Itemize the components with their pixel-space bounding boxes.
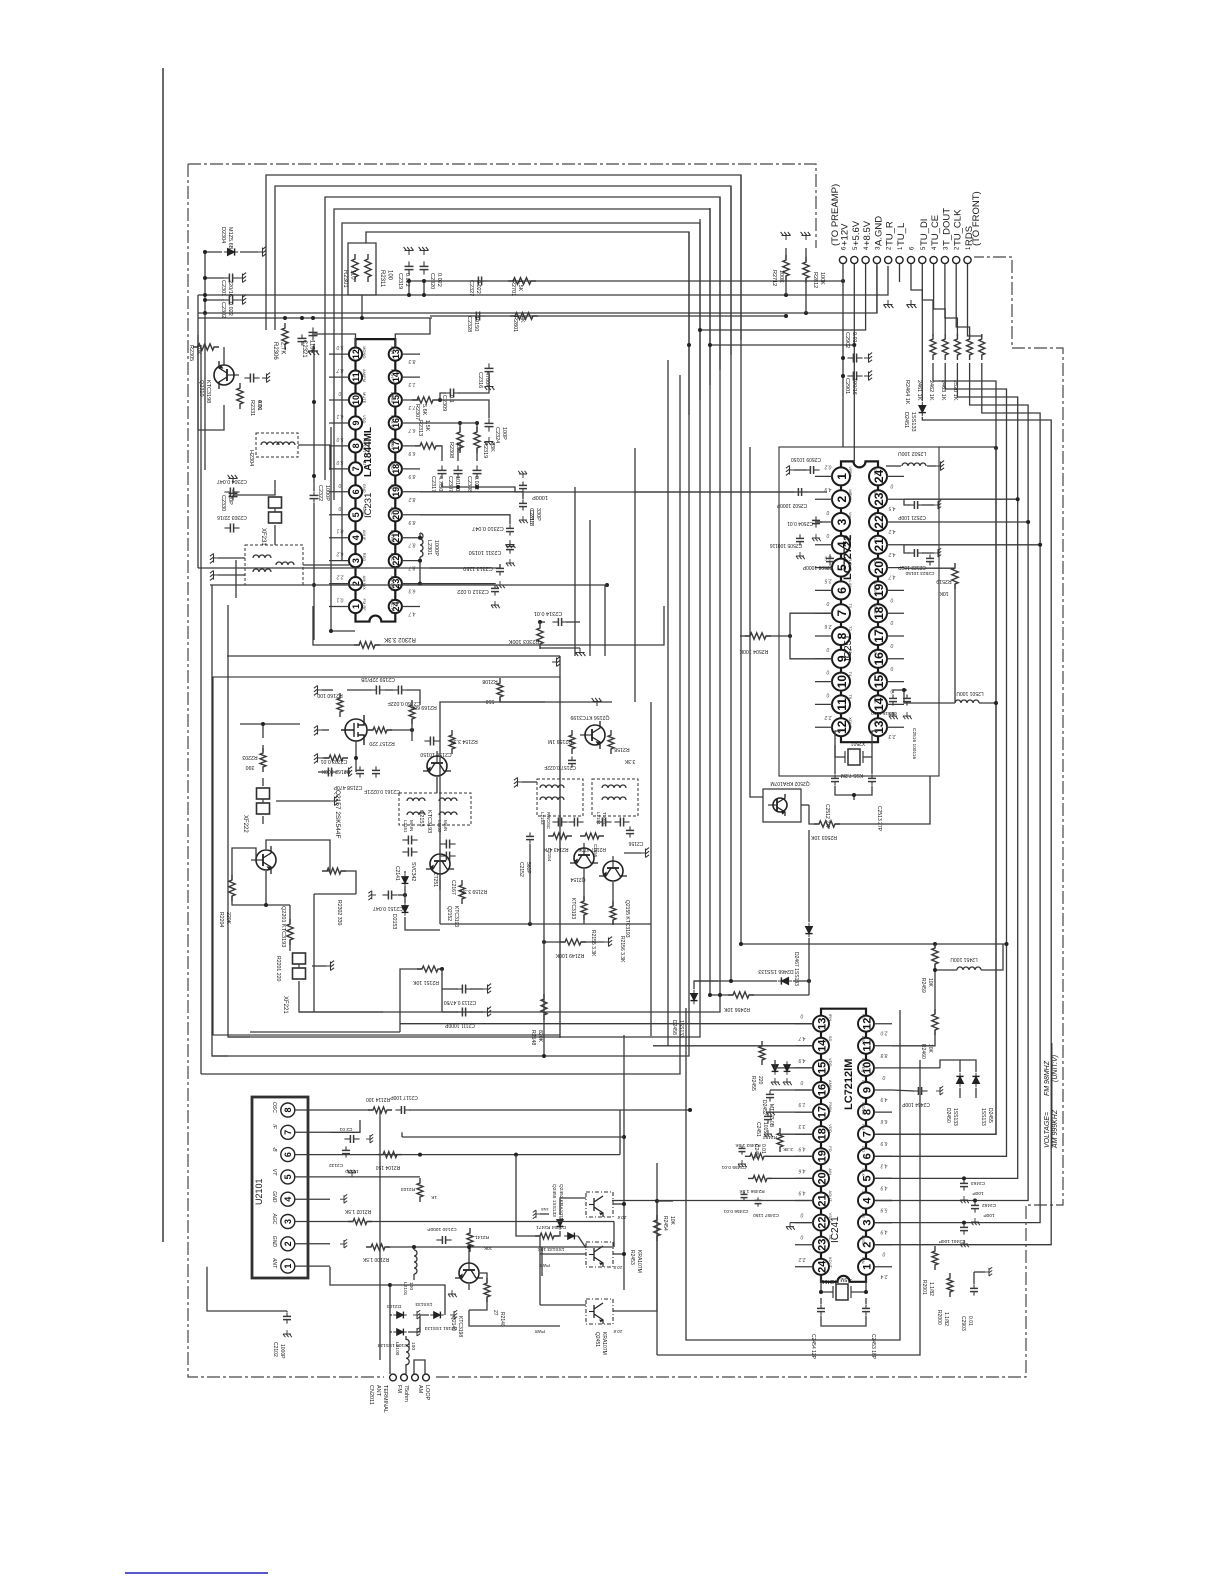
crystal XF221 [293, 953, 306, 964]
resistor R2140 27 [484, 1278, 490, 1302]
wire R box bottom to bus [361, 295, 363, 318]
wire left rail x201 [200, 345, 202, 1074]
resistor R2503 10K [814, 821, 840, 827]
svg-text:DI: DI [873, 512, 878, 516]
connector pin 1 RDS [964, 256, 971, 263]
svg-text:LOOP: LOOP [424, 1385, 430, 1401]
wire box top extension [939, 446, 996, 448]
svg-text:11: 11 [835, 698, 849, 711]
svg-text:XOUT: XOUT [848, 717, 853, 729]
svg-text:TERMINAL: TERMINAL [382, 1385, 388, 1413]
svg-text:Vose: Vose [848, 535, 853, 545]
svg-text:GND: GND [362, 507, 367, 516]
svg-text:6: 6 [835, 587, 849, 594]
svg-text:4.9: 4.9 [880, 1229, 887, 1235]
svg-text:L2501 100U: L2501 100U [956, 690, 984, 696]
resistor R2169 680 [409, 700, 415, 724]
svg-text:R2701: R2701 [510, 280, 516, 296]
wire IC241 enclosure inner [686, 1008, 900, 1340]
wire osc out [367, 729, 373, 731]
svg-text:KSS 7.2M: KSS 7.2M [841, 772, 864, 778]
wire osc section box [213, 677, 560, 1035]
svg-text:0: 0 [338, 482, 341, 488]
svg-text:FM 98MHZ: FM 98MHZ [1044, 1060, 1051, 1096]
resistor R2519 10K [952, 563, 958, 589]
wire TU_R net [198, 266, 888, 295]
resistor R2452 3.3K [777, 1128, 783, 1152]
wire IC231 pin 18 stub [402, 468, 420, 470]
svg-text:3.3K: 3.3K [782, 1146, 793, 1152]
connector U2101 pin 2 GND [281, 1237, 295, 1251]
discriminator T2301 box [245, 545, 303, 585]
wire IC241 stubs row 8 [795, 1200, 814, 1202]
svg-text:6: 6 [283, 1152, 293, 1157]
svg-text:100P: 100P [983, 1212, 994, 1218]
coil L2502 100U [902, 463, 926, 466]
svg-text:FM: FM [396, 1385, 402, 1393]
capacitor C2317 4.7/50 [441, 465, 443, 470]
ground TU stubs [899, 264, 901, 282]
svg-text:Voss: Voss [848, 512, 853, 521]
connector pin 2 TU_R [885, 256, 892, 263]
svg-text:DO: DO [861, 1146, 866, 1152]
svg-text:10K: 10K [927, 978, 933, 988]
resistor R2331 47K [237, 383, 243, 409]
svg-text:0: 0 [826, 669, 829, 675]
capacitor C2452 0.01 [767, 1112, 769, 1116]
connector CN2011 ANT [390, 1374, 397, 1381]
wire IC241 stubs row 7 [795, 1177, 814, 1179]
svg-text:22: 22 [816, 1216, 828, 1228]
svg-text:1.5K: 1.5K [424, 420, 430, 432]
resistor R2460 10K [932, 1009, 938, 1035]
svg-text:MPXIN: MPXIN [848, 489, 853, 502]
resistor R2159 1M [569, 730, 575, 754]
capacitor C2305 [301, 334, 303, 338]
wire long mid horizontals [250, 1031, 400, 1033]
resistor R2812 100K [801, 232, 811, 240]
resistor R2455 220 [759, 1041, 765, 1065]
svg-text:33K: 33K [489, 442, 495, 452]
svg-text:8.8: 8.8 [880, 1052, 887, 1058]
svg-text:2.4: 2.4 [880, 1273, 888, 1279]
svg-text:8.9: 8.9 [408, 473, 415, 479]
svg-text:C2157 0.022F: C2157 0.022F [544, 764, 576, 770]
svg-text:R2104 150: R2104 150 [376, 1164, 401, 1170]
capacitor C2141 caps row [402, 839, 408, 841]
wire AM bus y318 [198, 317, 432, 319]
wire IC251 stubs row 2 [815, 521, 833, 523]
svg-text:2: 2 [835, 496, 849, 503]
svg-text:L2100: L2100 [394, 1342, 400, 1356]
resistor R2453 1.5K capacitor C2455 [745, 1153, 769, 1159]
capacitor C2462 100P [974, 1201, 976, 1205]
coil L2451 100U [957, 967, 981, 970]
diode D2450 1SS133 [956, 1073, 963, 1087]
wire IC231 pin 9 stub [329, 422, 349, 424]
svg-text:5: 5 [861, 1175, 873, 1181]
footer link underline [125, 1572, 268, 1574]
svg-text:24: 24 [816, 1260, 828, 1273]
svg-text:(TO FRONT): (TO FRONT) [971, 191, 982, 246]
svg-text:1.9: 1.9 [798, 1101, 805, 1107]
transistor Q2201 KTC3193 [251, 846, 276, 874]
wire IC241 stubs row 0 [795, 1023, 814, 1025]
svg-text:KTC3193: KTC3193 [426, 810, 432, 833]
svg-text:C2902: C2902 [844, 332, 850, 348]
svg-text:FMIN: FMIN [828, 1102, 833, 1112]
svg-text:L2101: L2101 [402, 1282, 408, 1296]
svg-text:OSC: OSC [271, 1102, 277, 1113]
svg-text:C2509 10150: C2509 10150 [791, 456, 821, 462]
svg-text:2.0: 2.0 [880, 1030, 888, 1036]
svg-text:10.5: 10.5 [613, 1265, 622, 1270]
svg-text:8.3: 8.3 [408, 358, 415, 364]
svg-text:3: 3 [835, 518, 849, 525]
svg-text:XF231: XF231 [260, 528, 266, 546]
svg-text:R2203: R2203 [242, 754, 257, 760]
svg-text:C2312 0.022: C2312 0.022 [457, 588, 489, 594]
svg-text:LIN: LIN [848, 580, 853, 586]
wire IC251 stubs row 4 [815, 567, 833, 569]
svg-text:Q2451: Q2451 [594, 1332, 600, 1347]
svg-text:T3: T3 [848, 649, 853, 654]
svg-text:C2502 1000P: C2502 1000P [776, 502, 807, 508]
resistor R2104 150 [378, 1152, 402, 1158]
svg-text:R2453 1.5K: R2453 1.5K [735, 1142, 761, 1148]
svg-text:R2456 10K: R2456 10K [723, 1006, 749, 1012]
svg-text:3.3K: 3.3K [624, 758, 635, 764]
svg-text:C2322: C2322 [317, 485, 323, 501]
svg-text:4.2: 4.2 [888, 528, 895, 534]
wire IC251 stubs row 6 [815, 612, 833, 614]
svg-text:17: 17 [816, 1106, 828, 1118]
svg-text:FM RF: FM RF [362, 599, 367, 612]
wire agc net [330, 1221, 352, 1223]
resistor R2801 4K [510, 313, 538, 320]
photocoupler Q2452 KRA107M [586, 1192, 613, 1217]
pll IC251 LC72722 [841, 461, 878, 742]
wire y316 long net [430, 315, 786, 317]
svg-text:DO: DO [873, 558, 878, 564]
wire IC231 pin 5 stub [329, 514, 349, 516]
svg-text:4.9: 4.9 [798, 1190, 805, 1196]
svg-text:1N8: 1N8 [541, 1207, 549, 1212]
svg-text:1000P: 1000P [532, 494, 548, 500]
wire IC231 pin 19 stub [402, 491, 420, 493]
wire box R2302 [313, 606, 360, 645]
pll IC241 LC72121M [821, 1009, 866, 1282]
svg-text:R2454: R2454 [662, 1216, 668, 1231]
capacitor C2322 1000P [313, 491, 315, 495]
svg-text:L2151: L2151 [403, 820, 408, 833]
svg-text:220/16: 220/16 [227, 280, 233, 297]
svg-text:2462 1K: 2462 1K [928, 380, 934, 401]
resistor R2319 33K [474, 427, 480, 453]
capacitor C2453 18P [865, 1304, 867, 1308]
connector U2101 pin 8 OSC [281, 1103, 295, 1117]
svg-text:0: 0 [800, 1079, 803, 1085]
svg-text:1SS133: 1SS133 [952, 1108, 958, 1126]
svg-text:OSC RU: OSC RU [390, 599, 395, 615]
coil H2304 box [256, 433, 298, 457]
svg-text:Q2152: Q2152 [446, 906, 452, 921]
wire IC241 stubs row 5 [795, 1133, 814, 1135]
photocoupler Q2453 KRA107M [586, 1242, 613, 1267]
wire left col caps [235, 560, 237, 598]
svg-text:Q2452 KRA107M: Q2452 KRA107M [558, 1184, 564, 1222]
wire mpx long [634, 491, 794, 493]
svg-text:Q2502 KRA107M: Q2502 KRA107M [770, 780, 809, 786]
svg-text:4.5M: 4.5M [840, 1276, 851, 1282]
svg-text:220K: 220K [225, 912, 231, 925]
svg-text:C2314 0.01: C2314 0.01 [534, 610, 562, 616]
wire q2201 collector [266, 840, 330, 871]
svg-text:D2304: D2304 [220, 227, 226, 243]
svg-text:C2328: C2328 [466, 316, 472, 332]
diode D2452 MTZJ3.0B [772, 1061, 779, 1075]
svg-text:VSSX: VSSX [861, 1235, 866, 1246]
svg-text:1000P: 1000P [279, 1344, 285, 1359]
svg-text:R2155 3.3K: R2155 3.3K [590, 930, 596, 957]
svg-text:VCO: VCO [390, 461, 395, 470]
svg-text:17: 17 [872, 629, 886, 643]
svg-text:9: 9 [351, 420, 361, 425]
svg-text:Vooo: Vooo [873, 694, 878, 704]
svg-text:BT: BT [362, 461, 367, 467]
svg-text:9: 9 [861, 1087, 873, 1093]
svg-text:100: 100 [408, 1282, 414, 1290]
capacitor C2512 27P [834, 774, 836, 778]
bus wire L4 [334, 209, 710, 500]
svg-text:FLOUT: FLOUT [848, 558, 853, 572]
svg-text:C2453 18P: C2453 18P [870, 1334, 876, 1360]
svg-text:8: 8 [351, 443, 361, 448]
svg-text:R2302 3.3K: R2302 3.3K [384, 636, 416, 642]
resistor R2204 220K [229, 875, 235, 901]
svg-text:R2102 1.5K: R2102 1.5K [344, 1208, 371, 1214]
svg-text:VDD: VDD [828, 1124, 833, 1133]
bus wire L1 [266, 175, 741, 340]
capacitor C2314 0.01 [552, 621, 558, 623]
svg-text:1: 1 [351, 604, 361, 609]
svg-text:2461 1K: 2461 1K [916, 380, 922, 401]
svg-text:C2521 100P: C2521 100P [897, 514, 925, 520]
svg-text:D2451: D2451 [903, 412, 909, 428]
capacitor C2140 1000P [436, 1239, 442, 1241]
svg-text:27: 27 [492, 1310, 498, 1316]
svg-text:C2151 0.047: C2151 0.047 [373, 905, 403, 911]
svg-text:3: 3 [861, 1220, 873, 1226]
svg-text:-B: -B [271, 1147, 277, 1153]
ground pin22 [786, 1223, 795, 1230]
svg-text:C2457 1150: C2457 1150 [753, 1212, 779, 1218]
svg-text:0: 0 [890, 619, 893, 625]
svg-text:0: 0 [826, 509, 829, 515]
capacitor C2318 1000P [522, 481, 524, 485]
svg-text:C2455 0.01: C2455 0.01 [721, 1164, 746, 1170]
svg-text:C2508 1000P: C2508 1000P [802, 564, 833, 570]
diode D2467 1SS133 [805, 923, 812, 937]
svg-text:4.9: 4.9 [798, 1057, 805, 1063]
varactor SVC342 [402, 873, 409, 887]
svg-text:C2311 10150: C2311 10150 [469, 549, 502, 555]
wire q2140 nets [468, 1284, 470, 1290]
svg-text:2.3: 2.3 [888, 733, 896, 739]
board outline dash-dot border [188, 164, 1063, 1377]
svg-text:AM IF: AM IF [362, 530, 367, 541]
svg-text:C2111 1000P: C2111 1000P [444, 1022, 475, 1028]
capacitor C2513 27P [871, 774, 873, 778]
capacitor C2203 0.01 [322, 771, 328, 773]
svg-text:AM: AM [417, 1385, 423, 1394]
wire IC241 stubs row 3 [795, 1089, 814, 1091]
wire IC241 stubs row 1 [795, 1045, 814, 1047]
capacitor C2463 100P [963, 1179, 965, 1183]
svg-text:TU_CE: TU_CE [930, 215, 941, 246]
svg-text:Q2455 1SS133: Q2455 1SS133 [551, 1184, 557, 1217]
svg-text:FM: FM [861, 1124, 866, 1130]
bus wire L5 [342, 223, 700, 560]
transformer L2154 TOSC box [592, 779, 638, 816]
wire IC231 pin 14 stub [402, 376, 420, 378]
crystal X2451 4.5M [836, 1284, 848, 1300]
svg-text:R2148: R2148 [530, 1030, 536, 1045]
wire IC251 stubs row 5 [815, 589, 833, 591]
svg-text:3: 3 [283, 1219, 293, 1224]
svg-text:0: 0 [826, 600, 829, 606]
svg-text:C2308: C2308 [466, 476, 472, 492]
wire pin21 net [612, 1200, 813, 1202]
svg-text:7: 7 [283, 1130, 293, 1135]
svg-text:H2304: H2304 [248, 450, 254, 466]
wire -B net [330, 1154, 620, 1156]
wire q2310 rail [198, 335, 224, 430]
capacitor C2451 10150 [769, 1090, 771, 1094]
grounds right cluster [518, 471, 527, 478]
svg-text:SDNC: SDNC [873, 603, 878, 614]
photocoupler Q2502 KRA107M [763, 789, 801, 822]
svg-text:0.01: 0.01 [967, 1316, 973, 1326]
svg-text:16: 16 [872, 652, 886, 666]
capacitor C2327 22620 [472, 280, 478, 282]
capacitor C2311 10150 [509, 542, 511, 546]
svg-text:C2461 100P: C2461 100P [939, 1238, 966, 1244]
svg-text:11: 11 [351, 372, 361, 382]
svg-text:4.5: 4.5 [888, 505, 895, 511]
svg-text:VOLTAGE=: VOLTAGE= [1044, 1112, 1051, 1148]
wire IC231 pin 10 stub [329, 399, 349, 401]
svg-text:SVC342: SVC342 [410, 862, 416, 881]
svg-text:MPX IN: MPX IN [390, 415, 395, 429]
wire y656 divider [227, 655, 560, 657]
svg-text:C2141: C2141 [394, 866, 400, 881]
svg-text:AM/FM: AM/FM [362, 369, 367, 382]
wire rail x331 [331, 427, 355, 631]
svg-text:4: 4 [283, 1197, 293, 1202]
resistor R2102 1.5K [348, 1219, 372, 1225]
capacitor C2509 10150 [804, 469, 810, 471]
transistor Q2154 KTC3193 [570, 843, 598, 868]
ground stubs discr [210, 554, 218, 564]
wire coupler nets [613, 1203, 624, 1205]
wire y568 long [198, 567, 490, 569]
svg-text:21: 21 [816, 1194, 828, 1206]
svg-text:XIN: XIN [861, 1257, 866, 1264]
transistor Q2152 KTC3193 [426, 849, 454, 874]
svg-text:10.6: 10.6 [617, 1215, 626, 1220]
svg-text:4.3: 4.3 [880, 1162, 887, 1168]
svg-text:C2456 0.01: C2456 0.01 [723, 1208, 748, 1214]
bus wire L3 [325, 197, 720, 480]
svg-text:1SS133: 1SS133 [980, 1108, 986, 1126]
wire IC241 stubs row 6 [795, 1155, 814, 1157]
wire flout [823, 567, 833, 569]
wire ic231 pin12 hook [312, 334, 356, 347]
svg-text:0: 0 [826, 532, 829, 538]
svg-text:220: 220 [757, 1076, 763, 1085]
diode D2458 1SS133 [690, 990, 697, 1004]
svg-text:ANT: ANT [271, 1257, 277, 1269]
svg-text:R2204: R2204 [218, 912, 224, 927]
svg-text:R2201 220: R2201 220 [275, 956, 281, 981]
svg-text:R2456 1.5K: R2456 1.5K [739, 1188, 765, 1194]
svg-text:IFIN: IFIN [828, 1014, 833, 1022]
wire TU_DI..RDS staircase [922, 264, 933, 336]
svg-text:R2302 330: R2302 330 [336, 900, 342, 925]
svg-text:C2315: C2315 [528, 508, 534, 524]
wire vt net [330, 1176, 420, 1178]
wire ant net [287, 1266, 289, 1268]
wire osc net R2114 C2117 [330, 1109, 372, 1111]
wire IC231 pin 16 stub [402, 422, 420, 424]
svg-text:+5.6V: +5.6V [851, 220, 862, 246]
svg-text:C2504 0.01: C2504 0.01 [787, 520, 813, 526]
svg-text:C2161 0.0221F: C2161 0.0221F [364, 788, 400, 794]
wire x544 vertical [543, 820, 545, 1056]
svg-text:0: 0 [890, 665, 893, 671]
wire IC251 stubs row 8 [815, 658, 833, 660]
svg-text:C2140 1000P: C2140 1000P [427, 1226, 456, 1232]
capacitor C2308 0.022 [476, 465, 478, 470]
svg-text:TU_DI: TU_DI [919, 219, 930, 246]
svg-text:XIN: XIN [873, 717, 878, 724]
coil L2301 1000P [420, 533, 423, 557]
svg-text:R2157 220: R2157 220 [369, 740, 394, 746]
svg-text:L2502 100U: L2502 100U [898, 450, 927, 456]
svg-text:1.3: 1.3 [408, 381, 415, 387]
wire IC231 pin 24 stub [402, 606, 420, 608]
capacitor C2302 0.022 [223, 299, 229, 301]
wire bottom mid links [613, 1222, 615, 1248]
svg-text:C2451: C2451 [755, 1122, 761, 1137]
capacitor C2508 1000P [829, 554, 831, 558]
wire left rail x198 [197, 295, 199, 568]
wire +12V feed [842, 264, 844, 447]
capacitor C2321 [312, 327, 314, 332]
svg-text:0.022: 0.022 [436, 273, 442, 287]
wire IC241 stubs row 2 [795, 1067, 814, 1069]
svg-text:AMIN: AMIN [828, 1080, 833, 1090]
svg-text:2.6: 2.6 [824, 555, 832, 561]
capacitor C2320 0.022 [423, 261, 425, 266]
wire IC231 pin 13 stub [402, 353, 420, 355]
resistor R2000 1.1/82 [947, 1273, 953, 1297]
svg-text:2: 2 [283, 1241, 293, 1246]
capacitor C2157 0.022F [571, 756, 573, 760]
transistor Q2155 KTC3193 [599, 856, 627, 881]
crystal X2501 7.2MHZ [848, 749, 860, 765]
